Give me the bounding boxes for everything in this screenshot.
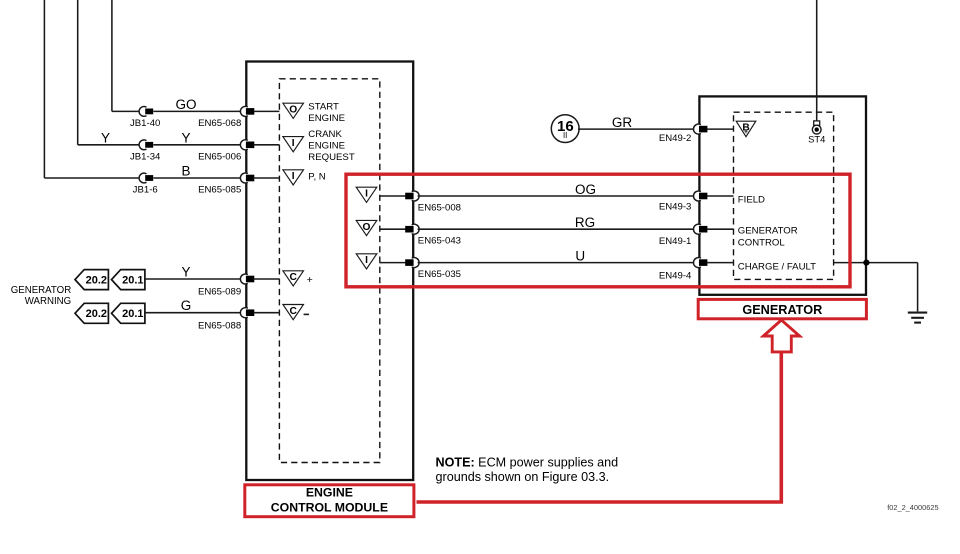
svg-text:GENERATOR: GENERATOR <box>738 226 798 237</box>
svg-text:I: I <box>365 189 368 200</box>
svg-text:REQUEST: REQUEST <box>308 152 355 163</box>
svg-text:OG: OG <box>575 182 596 197</box>
svg-text:EN65-089: EN65-089 <box>198 287 241 298</box>
svg-text:EN65-008: EN65-008 <box>418 203 461 214</box>
svg-text:C: C <box>290 306 298 317</box>
svg-text:EN65-085: EN65-085 <box>198 185 241 196</box>
svg-text:20.2: 20.2 <box>86 275 107 287</box>
svg-text:CONTROL: CONTROL <box>738 238 786 249</box>
svg-text:B: B <box>181 164 190 179</box>
svg-text:GENERATOR: GENERATOR <box>742 303 822 317</box>
svg-text:Y: Y <box>181 130 190 145</box>
svg-text:JB1-40: JB1-40 <box>130 118 160 129</box>
svg-text:CHARGE / FAULT: CHARGE / FAULT <box>738 261 816 272</box>
svg-text:20.1: 20.1 <box>122 275 143 287</box>
svg-text:ENGINE: ENGINE <box>308 113 345 124</box>
svg-text:EN65-088: EN65-088 <box>198 320 241 331</box>
svg-text:JB1-6: JB1-6 <box>133 185 158 196</box>
svg-text:O: O <box>289 105 297 116</box>
svg-text:EN49-3: EN49-3 <box>659 201 692 212</box>
svg-text:GENERATOR: GENERATOR <box>11 285 71 296</box>
svg-text:GO: GO <box>175 97 196 112</box>
svg-text:P, N: P, N <box>308 172 325 183</box>
svg-text:O: O <box>363 222 371 233</box>
svg-text:ENGINE: ENGINE <box>308 141 345 152</box>
svg-text:20.1: 20.1 <box>122 308 143 320</box>
svg-text:WARNING: WARNING <box>25 296 71 307</box>
svg-text:EN49-4: EN49-4 <box>659 270 692 281</box>
svg-text:II: II <box>563 131 567 140</box>
svg-text:EN49-2: EN49-2 <box>659 133 692 144</box>
svg-text:FIELD: FIELD <box>738 195 765 206</box>
svg-text:EN49-1: EN49-1 <box>659 236 692 247</box>
svg-text:+: + <box>744 129 748 136</box>
svg-text:C: C <box>290 272 298 283</box>
svg-text:EN65-068: EN65-068 <box>198 118 241 129</box>
svg-text:Y: Y <box>181 264 190 279</box>
svg-text:I: I <box>292 171 295 182</box>
svg-text:20.2: 20.2 <box>86 308 107 320</box>
svg-text:EN65-043: EN65-043 <box>418 236 461 247</box>
svg-text:NOTE: ECM power supplies and: NOTE: ECM power supplies and <box>436 456 619 470</box>
svg-text:RG: RG <box>575 215 595 230</box>
svg-text:ENGINE: ENGINE <box>306 485 353 499</box>
svg-text:JB1-34: JB1-34 <box>130 151 161 162</box>
svg-text:Y: Y <box>101 130 110 145</box>
svg-text:EN65-006: EN65-006 <box>198 151 241 162</box>
svg-text:START: START <box>308 101 339 112</box>
svg-text:f02_2_4000625: f02_2_4000625 <box>887 503 938 512</box>
svg-text:I: I <box>292 138 295 149</box>
svg-text:G: G <box>181 298 192 313</box>
svg-text:+: + <box>307 274 313 286</box>
svg-text:U: U <box>575 248 585 263</box>
svg-text:CONTROL MODULE: CONTROL MODULE <box>271 500 388 514</box>
svg-text:CRANK: CRANK <box>308 129 342 140</box>
svg-text:GR: GR <box>612 115 633 130</box>
svg-text:EN65-035: EN65-035 <box>418 269 461 280</box>
svg-text:ST4: ST4 <box>808 133 825 144</box>
svg-text:I: I <box>365 255 368 266</box>
svg-text:grounds shown on Figure 03.3.: grounds shown on Figure 03.3. <box>436 470 610 484</box>
